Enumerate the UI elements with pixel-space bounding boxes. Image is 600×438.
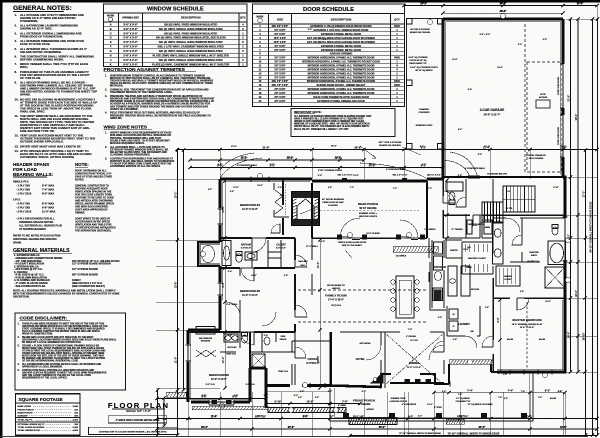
svg-text:12" SQ BRICK: 12" SQ BRICK [456, 398, 470, 400]
svg-text:PRESSURE TREATED WOOD SHALL BE: PRESSURE TREATED WOOD SHALL BE RETREATED… [110, 114, 211, 117]
svg-text:7'-4": 7'-4" [467, 388, 473, 392]
svg-text:TOTAL LIVING W/ BONUS: TOTAL LIVING W/ BONUS [18, 426, 45, 429]
svg-text:5'-4": 5'-4" [264, 394, 268, 397]
slider door panels [340, 237, 418, 240]
bath3 fixtures [222, 241, 257, 266]
svg-text:REQUIREMENTS AT THE LOCAL OFFI: REQUIREMENTS AT THE LOCAL OFFICE. [22, 377, 68, 380]
svg-text:FRONT PORCH: FRONT PORCH [353, 399, 375, 403]
svg-text:2'8" X 8'0": 2'8" X 8'0" [274, 89, 285, 91]
square footage rows [16, 405, 81, 432]
kitchen appliance dark [434, 290, 442, 301]
svg-text:3'-0" X 5'-0": 3'-0" X 5'-0" [123, 40, 138, 44]
svg-text:DRYER VENT MUST HAVE MAX LENGT: DRYER VENT MUST HAVE MAX LENGTH 25'. [20, 144, 82, 148]
entry double doors [371, 373, 383, 383]
svg-text:S/H (2) VINYL SINGLE HUNG WIND: S/H (2) VINYL SINGLE HUNG WINDOW INSULAT… [159, 58, 223, 62]
svg-text:38'-10": 38'-10" [581, 332, 585, 340]
svg-text:12" SQ BRICK COLUMNS: 12" SQ BRICK COLUMNS [467, 404, 493, 406]
svg-text:STAMPED: STAMPED [419, 108, 429, 111]
svg-text:WAY).: WAY). [20, 65, 28, 69]
svg-text:S/H (2) VINYL FIXED WINDOW INS: S/H (2) VINYL FIXED WINDOW INSULATED [164, 22, 217, 26]
code disclaimer text [18, 323, 118, 380]
plan dimension lines left [176, 148, 179, 436]
svg-text:WOOD BEAM TO: WOOD BEAM TO [327, 284, 345, 287]
small dim texts [228, 175, 562, 406]
svg-text:UNLESS NOTED. DESIGN TO FOUNDA: UNLESS NOTED. DESIGN TO FOUNDATION SHEET… [20, 90, 97, 94]
svg-text:D: D [110, 36, 112, 40]
svg-text:13'-6" X 18'-0": 13'-6" X 18'-0" [520, 327, 535, 329]
svg-text:PLATE (2) VINYL CASEMENT WINDO: PLATE (2) VINYL CASEMENT WINDOW WALL W/ … [152, 63, 229, 67]
svg-text:6'-2": 6'-2" [545, 388, 551, 392]
svg-text:POSTS W/ 16" SQ: POSTS W/ 16" SQ [410, 60, 427, 62]
svg-text:2'-10": 2'-10" [553, 187, 559, 189]
svg-text:35'-8": 35'-8" [500, 11, 506, 13]
svg-text:3'0" X 8'0": 3'0" X 8'0" [274, 58, 285, 60]
garage inner finish line [191, 22, 563, 400]
front walk hatch [268, 408, 347, 413]
svg-text:2'8" X 6'8": 2'8" X 6'8" [274, 97, 285, 99]
master bath vanity [493, 223, 504, 264]
svg-text:5'-0": 5'-0" [208, 189, 212, 191]
svg-text:DBL 3'-0" X 5'-0": DBL 3'-0" X 5'-0" [393, 175, 408, 177]
scan edge bottom line [0, 436, 588, 437]
svg-text:REAR PORCH: REAR PORCH [358, 202, 378, 206]
svg-text:1/2" GYPSUM BOARD INTERIOR: 1/2" GYPSUM BOARD INTERIOR [72, 263, 111, 266]
svg-text:8'-0" MAX: 8'-0" MAX [42, 202, 54, 206]
svg-text:4,105: 4,105 [73, 419, 79, 422]
svg-text:METHODS.: METHODS. [110, 85, 124, 88]
svg-text:5'-0": 5'-0" [300, 391, 304, 393]
svg-text:56'-8": 56'-8" [354, 145, 362, 149]
svg-text:- 1 PLY 2X10: - 1 PLY 2X10 [16, 192, 32, 196]
master toilet [552, 225, 558, 236]
svg-text:2'-2": 2'-2" [408, 414, 414, 418]
svg-text:11'-0": 11'-0" [241, 157, 247, 159]
svg-text:9'-8": 9'-8" [202, 395, 206, 397]
garage door jambs [560, 64, 563, 157]
svg-text:S/H (2) VINYL SINGLE HUNG WIND: S/H (2) VINYL SINGLE HUNG WINDOW INSULAT… [159, 49, 223, 53]
svg-text:7'-2": 7'-2" [428, 188, 432, 190]
svg-text:25'-7": 25'-7" [459, 416, 465, 418]
foyer walls [330, 332, 385, 384]
svg-text:2,945: 2,945 [73, 405, 79, 408]
svg-text:OPENING SIZE: OPENING SIZE [122, 17, 139, 20]
kitchen sink [450, 279, 456, 283]
svg-text:BATH #3: BATH #3 [241, 244, 251, 247]
svg-text:1'-0": 1'-0" [503, 374, 507, 376]
general materials list [14, 254, 120, 288]
svg-text:PRIOR TO CONSTRUCTION.: PRIOR TO CONSTRUCTION. [22, 334, 53, 336]
svg-text:75'-10" OVERALL WIDTH TO BRICK: 75'-10" OVERALL WIDTH TO BRICK EDGE [447, 431, 499, 435]
svg-text:BATH #2: BATH #2 [228, 346, 238, 349]
square footage box [16, 394, 81, 436]
roofing note [13, 289, 120, 299]
svg-text:BUTLER: BUTLER [471, 289, 480, 291]
svg-text:MASTER BEDROOM: MASTER BEDROOM [512, 318, 542, 322]
svg-text:C: C [110, 31, 112, 35]
svg-text:FACE TO STUD FACE.: FACE TO STUD FACE. [20, 42, 51, 46]
svg-text:6'-0" MAX: 6'-0" MAX [42, 184, 54, 188]
svg-text:NOTED.: NOTED. [75, 179, 85, 182]
plan dimension chain upper [175, 148, 598, 151]
svg-text:6"X6" CYPRESS POSTS: 6"X6" CYPRESS POSTS [318, 170, 342, 172]
porch side walls thicken [312, 183, 427, 238]
framing note block [75, 162, 116, 233]
svg-text:4" CONCRETE: 4" CONCRETE [402, 403, 417, 406]
svg-text:2'-0": 2'-0" [518, 44, 522, 46]
svg-text:4' CONCRETE WALK: 4' CONCRETE WALK [386, 168, 406, 171]
svg-text:3'0" X 8'0": 3'0" X 8'0" [274, 34, 285, 36]
svg-text:OLD BRICK: OLD BRICK [396, 256, 407, 258]
svg-text:BEDROOM #4: BEDROOM #4 [240, 203, 260, 207]
svg-text:OPTIONAL BONUS SQ FT: OPTIONAL BONUS SQ FT [18, 423, 45, 426]
svg-text:CONTRACTOR TO LOCATE WATER HEA: CONTRACTOR TO LOCATE WATER HEATER + A/C … [99, 430, 167, 433]
svg-text:TRIPLE SLIDE GLASS DOOR: TRIPLE SLIDE GLASS DOOR [338, 241, 367, 244]
svg-text:PAIR: PAIR [394, 80, 400, 83]
svg-text:KITCHEN: KITCHEN [434, 265, 446, 269]
svg-text:2'-0" X 5'-0": 2'-0" X 5'-0" [123, 45, 138, 49]
master closet hers [496, 266, 520, 286]
scan edge top bar [0, 0, 600, 3]
svg-text:(B) 2'-0" X 3'-0": (B) 2'-0" X 3'-0" [427, 175, 441, 177]
svg-text:12'(?) CLG: 12'(?) CLG [331, 305, 341, 307]
wide concrete walk arc [360, 163, 428, 179]
svg-text:2'-0": 2'-0" [321, 241, 325, 243]
svg-text:DBL 3'0" X 8'0": DBL 3'0" X 8'0" [272, 26, 289, 28]
svg-text:STAINED CONC +: STAINED CONC + [359, 212, 378, 215]
svg-text:7'-2": 7'-2" [393, 188, 397, 190]
svg-text:ALL EXTERIOR ALL HEADER PLUS: ALL EXTERIOR ALL HEADER PLUS [19, 224, 62, 228]
svg-text:5'-2": 5'-2" [270, 164, 274, 166]
porch steps hatch 2 [446, 419, 464, 424]
svg-text:20'-0" X 21'-7": 20'-0" X 21'-7" [484, 114, 501, 117]
svg-text:BEDROOM #2: BEDROOM #2 [209, 373, 229, 377]
svg-text:12'-0": 12'-0" [335, 157, 341, 159]
svg-text:9'-0" CLG: 9'-0" CLG [205, 384, 215, 386]
svg-text:2'-8": 2'-8" [278, 187, 282, 189]
svg-text:5-1/2" SQ CYPRESS: 5-1/2" SQ CYPRESS [408, 57, 428, 59]
svg-text:- 2 PLY 2X10: - 2 PLY 2X10 [16, 210, 32, 214]
svg-text:INTERIOR HORIZONTAL 8 PANEL H.: INTERIOR HORIZONTAL 8 PANEL H.C. THERMOT… [308, 57, 375, 60]
svg-text:7'-4": 7'-4" [538, 396, 542, 399]
svg-text:SEE TO THE SHEET: SEE TO THE SHEET [342, 245, 363, 247]
dining table with chairs [396, 276, 414, 318]
svg-text:SPANS.: SPANS. [20, 93, 31, 97]
svg-text:INTERIOR HORIZONTAL 8 PANEL H.: INTERIOR HORIZONTAL 8 PANEL H.C. THERMOT… [308, 88, 375, 91]
svg-text:17'-2": 17'-2" [581, 191, 585, 198]
window double lines on key walls [209, 176, 552, 405]
svg-text:INTERIOR HORIZONTAL 8 PANEL H.: INTERIOR HORIZONTAL 8 PANEL H.C. THERMOT… [308, 68, 375, 71]
svg-text:OWNER.: OWNER. [75, 212, 85, 215]
water heater note box [89, 427, 178, 434]
svg-text:W/ CEILING: W/ CEILING [358, 404, 371, 406]
equip pad [196, 327, 215, 335]
svg-text:INTERIOR HORIZONTAL 8 PANEL H.: INTERIOR HORIZONTAL 8 PANEL H.C. THERMOT… [308, 92, 375, 95]
svg-text:3'0" X 8'0": 3'0" X 8'0" [274, 30, 285, 32]
svg-text:JOINTS OF A BARRIER.: JOINTS OF A BARRIER. [110, 108, 139, 111]
svg-text:11'-0": 11'-0" [463, 249, 469, 251]
plan dimension lines bottom-left vertical [156, 388, 159, 436]
svg-text:A: A [110, 22, 112, 26]
interior vertical dim chains [223, 179, 226, 389]
svg-text:FAMILY ROOM: FAMILY ROOM [325, 294, 347, 298]
more ticks on right chains [569, 236, 587, 373]
svg-text:8'-4": 8'-4" [218, 163, 222, 166]
svg-text:KIDS: KIDS [281, 336, 286, 338]
svg-text:BEDROOM #3: BEDROOM #3 [240, 289, 260, 293]
svg-text:EXTERIOR 1 LITE FULL FRENCH WO: EXTERIOR 1 LITE FULL FRENCH WOOD DOOR [314, 29, 369, 32]
dim chain under master bedroom [432, 391, 566, 394]
svg-text:4'-0": 4'-0" [328, 403, 332, 406]
svg-text:LINEN: LINEN [484, 227, 490, 229]
svg-text:APPROVED BY A LOCAL ENGINEER.: APPROVED BY A LOCAL ENGINEER. [22, 366, 63, 369]
svg-text:SHALL BE 20". FINISHED SILL HE: SHALL BE 20". FINISHED SILL HEIGHT = 24"… [294, 128, 349, 131]
svg-text:11'-6" X 12'-0": 11'-6" X 12'-0" [211, 378, 227, 381]
svg-text:EXTERIOR 8 PANEL METAL DOOR: EXTERIOR 8 PANEL METAL DOOR [321, 49, 361, 52]
svg-text:OF THIS PLAN.: OF THIS PLAN. [20, 76, 41, 80]
svg-text:4" BRICK SKIRT AROUND ENTIRE H: 4" BRICK SKIRT AROUND ENTIRE HOME [115, 419, 160, 422]
porch steps hatch 1 [349, 418, 397, 425]
svg-text:5'-0": 5'-0" [543, 39, 547, 41]
svg-text:9'-5": 9'-5" [303, 416, 307, 418]
svg-text:HAVE A FINISHED SILL CLEAR OPE: HAVE A FINISHED SILL CLEAR OPENING OF 5.… [294, 117, 364, 120]
svg-text:OTHERWISE.: OTHERWISE. [20, 19, 38, 23]
svg-text:CLOSET: CLOSET [504, 279, 512, 281]
svg-text:13'-0": 13'-0" [545, 301, 551, 303]
scan edge left bar [0, 0, 2, 438]
svg-text:FIREPLACE W/ GAS: FIREPLACE W/ GAS [322, 201, 344, 204]
svg-text:WINDOW SCHEDULE: WINDOW SCHEDULE [147, 7, 204, 13]
kitchen counter hatch top [393, 246, 439, 252]
svg-text:UP 17R: UP 17R [506, 208, 513, 210]
svg-text:2.: 2. [105, 89, 107, 92]
svg-text:3'0" X 8'0": 3'0" X 8'0" [274, 101, 285, 103]
svg-text:13'-0": 13'-0" [427, 404, 433, 406]
svg-text:2'-8": 2'-8" [315, 397, 319, 399]
svg-text:6'-8": 6'-8" [478, 154, 482, 156]
svg-text:FRONT PORCH: FRONT PORCH [18, 409, 34, 411]
fireplace hatched [292, 192, 319, 225]
svg-text:MASTER CLOSET: MASTER CLOSET [468, 257, 487, 260]
window marks on porch top wall [342, 178, 407, 183]
svg-text:4'-2": 4'-2" [330, 415, 334, 418]
svg-text:3'-0" X 5'-0": 3'-0" X 5'-0" [123, 31, 138, 35]
house left exterior wall [188, 179, 220, 402]
svg-text:PANTRY: PANTRY [450, 249, 458, 252]
svg-text:DISCRETION.: DISCRETION. [13, 295, 30, 299]
plan dimension lines bottom [155, 397, 267, 400]
svg-text:15'-2": 15'-2" [173, 192, 177, 199]
svg-text:2'-6": 2'-6" [520, 291, 524, 293]
extension lines [188, 6, 597, 438]
svg-text:5-1/2" SQ CYPRESS POSTS: 5-1/2" SQ CYPRESS POSTS [410, 67, 438, 69]
svg-text:BOARD ON CEILING: BOARD ON CEILING [379, 144, 401, 147]
svg-text:DESCRIPTION: DESCRIPTION [331, 17, 352, 21]
svg-text:14'-2": 14'-2" [288, 426, 294, 429]
svg-text:21'-4": 21'-4" [484, 145, 490, 148]
svg-text:16'0" X 8'0": 16'0" X 8'0" [274, 38, 286, 40]
svg-text:3,265: 3,265 [73, 427, 79, 429]
svg-text:2.: 2. [105, 146, 107, 149]
svg-text:CLADDING DESIGN PRESSURES.: CLADDING DESIGN PRESSURES. [110, 154, 151, 157]
svg-text:EXTERIOR 1 LITE (2) FRENCH SOL: EXTERIOR 1 LITE (2) FRENCH SOLID WOOD DO… [310, 25, 372, 28]
patio posts [407, 19, 444, 150]
rear patio outline [407, 19, 444, 150]
svg-text:ALIGN: ALIGN [507, 338, 514, 341]
svg-text:12'-8": 12'-8" [251, 275, 257, 277]
svg-text:3.: 3. [15, 31, 18, 35]
svg-text:INTERIOR HORIZONTAL 8 PANEL H.: INTERIOR HORIZONTAL 8 PANEL H.C. THERMOT… [308, 65, 375, 68]
svg-text:ABOVE: ABOVE [332, 287, 340, 290]
window schedule rows [110, 22, 245, 66]
svg-text:CONCRETE: CONCRETE [418, 112, 430, 114]
svg-text:EXTERIOR 8 PANEL METAL DOOR: EXTERIOR 8 PANEL METAL DOOR [321, 45, 361, 48]
svg-text:3'-0" X 5'-0": 3'-0" X 5'-0" [123, 27, 138, 31]
svg-text:7'-0": 7'-0" [408, 329, 412, 331]
svg-text:38'-4": 38'-4" [574, 114, 578, 121]
svg-text:SOLID CORE THERMOTE ATTIC ACCE: SOLID CORE THERMOTE ATTIC ACCESS DOOR [313, 96, 369, 99]
svg-text:STAINED CONC: STAINED CONC [390, 397, 406, 400]
window mark circles [200, 13, 570, 408]
svg-text:12' CLG: 12' CLG [410, 340, 418, 342]
garage exterior walls [443, 19, 563, 179]
svg-text:K: K [110, 63, 112, 67]
svg-text:BATH: BATH [531, 254, 537, 257]
svg-text:ALIGN: ALIGN [539, 338, 546, 341]
svg-text:3'-6": 3'-6" [328, 187, 332, 189]
svg-text:2'-8": 2'-8" [323, 39, 327, 41]
entry closet X [252, 354, 265, 367]
svg-text:OUTSIDE SHORE APPLICABLE.: OUTSIDE SHORE APPLICABLE. [20, 140, 64, 144]
svg-text:1.: 1. [105, 132, 107, 135]
svg-text:30'-0": 30'-0" [574, 290, 578, 297]
svg-text:17'-0" WALL: 17'-0" WALL [306, 245, 319, 248]
svg-text:11'-0" X 11'-6": 11'-0" X 11'-6" [242, 294, 258, 297]
svg-text:SLOPE CLG: SLOPE CLG [527, 261, 539, 263]
svg-text:8" DEEP: 8" DEEP [338, 405, 347, 407]
butler counters [430, 262, 470, 310]
svg-text:8.: 8. [15, 70, 18, 74]
svg-text:16'-0": 16'-0" [452, 59, 458, 61]
svg-text:MASTER: MASTER [504, 275, 512, 278]
svg-text:11'-4": 11'-4" [211, 415, 217, 418]
svg-text:- SEE FOUNDATION PLAN: - SEE FOUNDATION PLAN [14, 285, 45, 288]
svg-text:2'8" X 8'0": 2'8" X 8'0" [274, 50, 285, 52]
svg-text:21'-8": 21'-8" [262, 145, 270, 149]
front porch outline [330, 372, 533, 421]
svg-text:3'-8": 3'-8" [188, 419, 192, 421]
plan dimension lines top [402, 4, 598, 7]
dining window marks [405, 379, 432, 383]
svg-text:(SUCH AS METAL OR PLASTIC TERM: (SUCH AS METAL OR PLASTIC TERMITE SHIELD… [110, 82, 213, 85]
svg-text:12'-0": 12'-0" [221, 357, 225, 364]
svg-text:SPACE: SPACE [280, 338, 287, 341]
svg-text:5'-4": 5'-4" [264, 334, 268, 337]
storage below label [443, 176, 563, 178]
house top exterior wall [220, 179, 443, 181]
svg-text:11.: 11. [15, 114, 19, 118]
svg-text:SHOWN AS 11'-0" SIZE.: SHOWN AS 11'-0" SIZE. [20, 27, 53, 31]
svg-text:AWPA M4.: AWPA M4. [110, 117, 122, 120]
svg-text:IMPORTANT NOTE:: IMPORTANT NOTE: [294, 110, 322, 114]
svg-text:HOLD DOWNS: HOLD DOWNS [529, 158, 544, 160]
svg-text:CATHEDRAL SPACE. (ATTICS SHOWN: CATHEDRAL SPACE. (ATTICS SHOWN) [20, 155, 74, 159]
svg-text:9'-2": 9'-2" [420, 146, 424, 148]
svg-text:BEARING WALLS:: BEARING WALLS: [13, 172, 54, 177]
svg-text:12'-2": 12'-2" [421, 3, 427, 5]
svg-text:5/8 THK X GYPSUM: 5/8 THK X GYPSUM [410, 29, 430, 31]
svg-text:14'-6": 14'-6" [566, 332, 570, 339]
svg-text:GROOVE JOINTS: GROOVE JOINTS [359, 216, 378, 218]
svg-text:SIZE: SIZE [277, 17, 283, 21]
svg-text:TREATMENT METHOD OF THE TERMIT: TREATMENT METHOD OF THE TERMITICIDE LABE… [110, 91, 173, 94]
svg-text:5/8" GYPSUM BOARD: 5/8" GYPSUM BOARD [72, 274, 98, 277]
svg-text:10'-0": 10'-0" [316, 262, 320, 269]
svg-text:7'-4": 7'-4" [498, 396, 502, 399]
svg-text:10'-4": 10'-4" [497, 66, 502, 69]
svg-text:AT SHOWN HEADERS: AT SHOWN HEADERS [19, 227, 46, 231]
svg-text:10.: 10. [15, 97, 19, 101]
rear porch posts [337, 235, 425, 240]
svg-text:25'-7 1/2": 25'-7 1/2" [353, 414, 365, 418]
svg-text:3.: 3. [105, 157, 107, 160]
important note text [294, 115, 372, 131]
svg-text:E: E [110, 40, 112, 44]
svg-text:15'-8": 15'-8" [560, 146, 566, 148]
svg-text:PAIR: PAIR [394, 25, 400, 28]
svg-text:16'X8' OHD DOOR: 16'X8' OHD DOOR [558, 77, 560, 95]
svg-text:84'-10" OVERALL WIDTH TO BRICK: 84'-10" OVERALL WIDTH TO BRICK EDGE [588, 201, 592, 252]
svg-text:MODULE REQUIRED SPECS.: MODULE REQUIRED SPECS. [110, 142, 145, 145]
svg-text:LIGHTER: LIGHTER [328, 205, 338, 207]
svg-text:44'-2": 44'-2" [379, 426, 385, 429]
svg-text:- 1 PLY 2X8: - 1 PLY 2X8 [16, 188, 30, 192]
svg-text:MAIN LIVING: MAIN LIVING [18, 405, 32, 408]
svg-text:8'-0": 8'-0" [496, 317, 500, 322]
master tub [548, 241, 566, 265]
svg-text:SPANS: SPANS [13, 242, 22, 245]
brick sill hatch front [449, 360, 493, 365]
center hall walls [312, 179, 565, 295]
laundry walls [447, 306, 480, 336]
garage ceiling dashed [525, 24, 561, 172]
svg-text:2'0" X 8'0": 2'0" X 8'0" [274, 77, 285, 79]
svg-text:2'8" X 8'0": 2'8" X 8'0" [274, 66, 285, 68]
svg-text:INTERIOR HORIZONTAL 8 PANEL H.: INTERIOR HORIZONTAL 8 PANEL H.C. THERMOT… [308, 76, 375, 79]
brick skirt hatch left [192, 406, 268, 410]
svg-text:8'-4": 8'-4" [468, 88, 472, 91]
svg-text:PAIR: PAIR [394, 84, 400, 87]
svg-text:EXTERIOR 8 PANEL FIBERGLASS DO: EXTERIOR 8 PANEL FIBERGLASS DOOR [317, 100, 365, 103]
svg-text:H: H [110, 54, 112, 58]
svg-text:16'-0" SLIDER: 16'-0" SLIDER [366, 233, 380, 235]
svg-text:1'-6": 1'-6" [485, 307, 489, 309]
door swing arcs [241, 191, 529, 358]
svg-text:10'-2": 10'-2" [287, 157, 293, 159]
svg-text:UNLESS NOTED OTHERWISE.: UNLESS NOTED OTHERWISE. [20, 50, 62, 54]
porch edge thicker [330, 420, 533, 422]
utility hall small walls [466, 179, 535, 238]
svg-text:9'-0" CLG: 9'-0" CLG [245, 384, 255, 386]
svg-text:2'-8": 2'-8" [453, 339, 457, 341]
svg-text:QTY.: QTY. [240, 16, 246, 20]
svg-text:2'-8": 2'-8" [230, 191, 234, 193]
svg-text:GARAGE: GARAGE [18, 414, 28, 417]
right side extension lines [156, 19, 598, 388]
brick skirt note box [108, 416, 166, 423]
svg-text:9.: 9. [15, 81, 18, 85]
svg-text:INTERIOR HORIZONTAL 8 PANEL H.: INTERIOR HORIZONTAL 8 PANEL H.C. THERMOT… [302, 61, 380, 64]
svg-text:11'-4": 11'-4" [525, 415, 531, 418]
